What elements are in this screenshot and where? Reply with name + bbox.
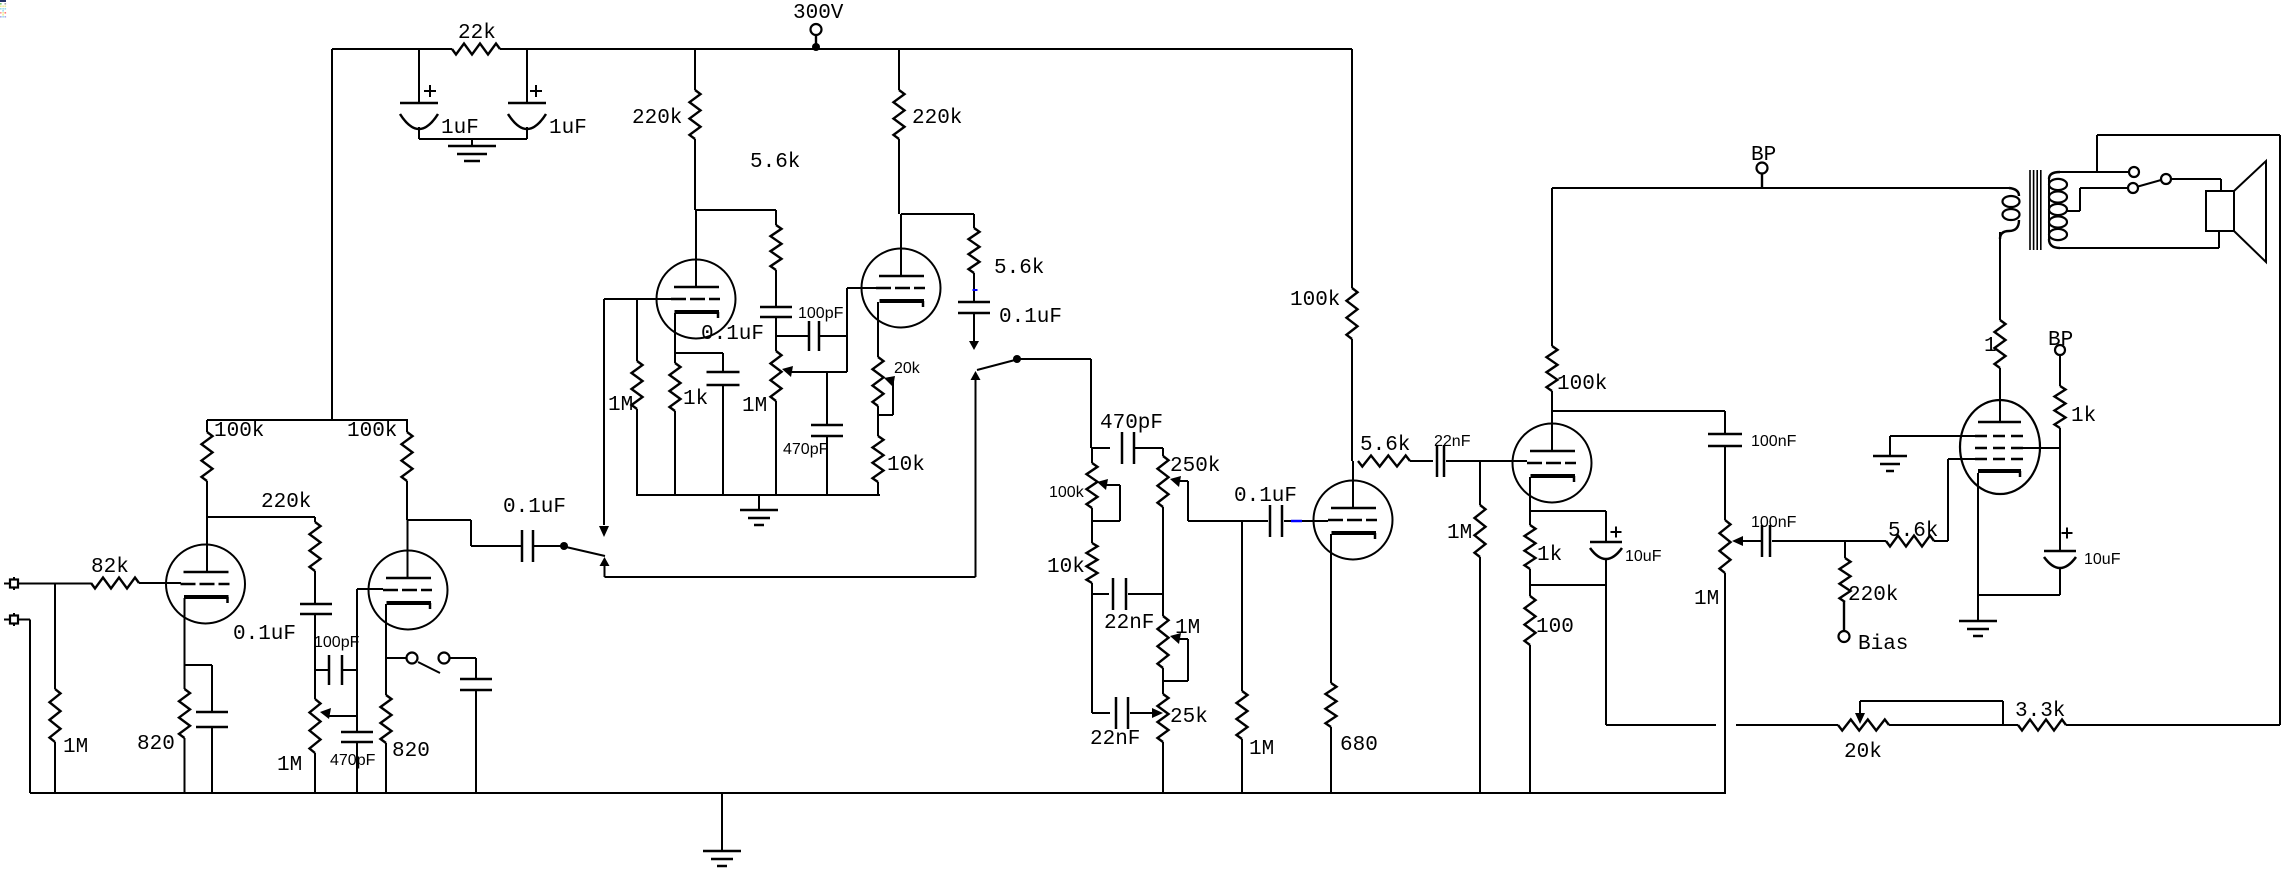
svg-text:22nF: 22nF bbox=[1090, 728, 1140, 751]
terminal input lower bbox=[4, 619, 10, 621]
svg-text:100pF: 100pF bbox=[798, 305, 844, 322]
wire secondary top bbox=[2060, 171, 2129, 173]
ground V7 cathode bbox=[1977, 595, 1979, 621]
svg-text:100nF: 100nF bbox=[1751, 514, 1797, 531]
svg-text:100k: 100k bbox=[347, 420, 397, 443]
wire V2 cathode lead bbox=[385, 604, 387, 658]
wiper arrow VR5 bbox=[1170, 476, 1181, 487]
resistor R25 220k bias feed bbox=[1844, 541, 1846, 558]
resistor R21 1M V6 grid bbox=[1479, 461, 1481, 505]
capacitor C21 100nF bbox=[1743, 540, 1762, 542]
capacitor C22 10uF electrolytic screen bbox=[2044, 550, 2076, 553]
svg-text:300V: 300V bbox=[793, 2, 844, 25]
wire V1 plate to 220k bbox=[207, 516, 315, 518]
switch S1 cathode bbox=[386, 657, 406, 659]
wire V4 cathode lead bbox=[877, 302, 879, 357]
resistor R18 100k V5 plate load bbox=[1351, 49, 1353, 288]
wire secondary top riser bbox=[2096, 135, 2098, 172]
svg-text:250k: 250k bbox=[1170, 455, 1220, 478]
wire blue mark bbox=[973, 289, 978, 291]
svg-text:0.1uF: 0.1uF bbox=[999, 306, 1062, 329]
svg-text:1M: 1M bbox=[742, 395, 767, 418]
wire V3 plate to 5.6k chain bbox=[696, 209, 776, 211]
svg-text:10uF: 10uF bbox=[1625, 548, 1662, 565]
transformer T1 primary bbox=[2009, 188, 2019, 196]
wire secondary tap bbox=[2066, 210, 2080, 212]
wire V6 cathode node bottom bbox=[1530, 584, 1606, 586]
resistor R28 1k screen bbox=[2059, 355, 2061, 386]
arrow selector up contact bbox=[600, 557, 610, 566]
resistor R11 5.6k bbox=[775, 210, 777, 225]
svg-text:1k: 1k bbox=[683, 388, 708, 411]
wire V7 cathode node bbox=[1978, 594, 2060, 596]
pentode V7 bbox=[1960, 400, 2040, 494]
ground below 1uF caps bbox=[471, 139, 473, 146]
capacitor C18 22nF coupling bbox=[1436, 445, 1439, 477]
capacitor C2 1uF electrolytic bbox=[508, 102, 546, 105]
svg-text:1k: 1k bbox=[2071, 405, 2096, 428]
wire 20k to 3.3k bbox=[1889, 724, 2018, 726]
resistor R26 5.6k grid stopper bbox=[1845, 540, 1886, 542]
wire V5 cathode lead bbox=[1330, 534, 1332, 683]
svg-text:22nF: 22nF bbox=[1434, 433, 1471, 450]
wire C9 to VR2 bbox=[775, 317, 777, 351]
switch S3 lever bbox=[977, 360, 1015, 370]
svg-text:220k: 220k bbox=[1848, 584, 1898, 607]
resistor R2 82k bbox=[91, 578, 139, 589]
wire blue mark 2 bbox=[1291, 520, 1302, 523]
capacitor C19 10uF electrolytic bbox=[1605, 511, 1607, 542]
svg-text:3.3k: 3.3k bbox=[2015, 700, 2065, 723]
triode V4 bbox=[862, 249, 941, 328]
wire V1 cathode lead bbox=[184, 598, 186, 665]
wire HT rail right segment bbox=[500, 48, 1352, 50]
potentiometer VR3 20k bbox=[873, 357, 884, 406]
svg-text:5.6k: 5.6k bbox=[1360, 434, 1410, 457]
svg-text:10uF: 10uF bbox=[2084, 551, 2121, 568]
resistor R24 100 bbox=[1529, 585, 1531, 596]
wire selector to lower bus bbox=[605, 576, 976, 578]
wire C17 to V5 grid bbox=[1284, 520, 1328, 522]
svg-text:820: 820 bbox=[137, 733, 175, 756]
svg-text:470pF: 470pF bbox=[1100, 412, 1163, 435]
svg-text:1M: 1M bbox=[63, 736, 88, 759]
capacitor C8 0.1uF coupling bbox=[521, 530, 524, 562]
ground main bbox=[721, 793, 723, 851]
capacitor C15 22nF bbox=[1092, 593, 1109, 595]
svg-text:100: 100 bbox=[1536, 616, 1574, 639]
wire S3 pole to tone chain bbox=[1020, 358, 1091, 360]
svg-text:100nF: 100nF bbox=[1751, 433, 1797, 450]
ground V7 grid bbox=[1873, 455, 1907, 458]
svg-text:1M: 1M bbox=[1249, 738, 1274, 761]
resistor R7 220k interstage bbox=[314, 517, 316, 522]
transformer T1 core bbox=[2029, 170, 2031, 250]
wire V4 plate lead bbox=[900, 214, 902, 276]
wire input lower to ground bus bbox=[19, 619, 31, 621]
svg-text:1uF: 1uF bbox=[441, 117, 479, 140]
wire V6 cathode lead bbox=[1529, 477, 1531, 511]
svg-text:100k: 100k bbox=[1557, 373, 1607, 396]
wire V3 cathode lead bbox=[674, 313, 676, 363]
capacitor C1 1uF electrolytic bbox=[400, 102, 438, 105]
potentiometer VR5 250k bbox=[1162, 448, 1164, 456]
resistor R4 820 V1 cathode bbox=[179, 689, 190, 738]
wire V7 g1 to ground bbox=[1890, 435, 1975, 437]
wire left HT drop bbox=[331, 49, 333, 420]
wire switch to speaker bbox=[2171, 178, 2221, 180]
svg-text:0.1uF: 0.1uF bbox=[233, 623, 296, 646]
svg-text:220k: 220k bbox=[912, 107, 962, 130]
wire feedback rail bbox=[1605, 585, 1607, 725]
svg-text:100k: 100k bbox=[1290, 289, 1340, 312]
potentiometer VR7 1M bbox=[1158, 616, 1169, 668]
potentiometer VR4 100k tone bbox=[1091, 448, 1093, 463]
resistor R9 220k V3 plate bbox=[694, 49, 696, 90]
svg-text:0.1uF: 0.1uF bbox=[1234, 485, 1297, 508]
wire V4 plate to 5.6k chain bbox=[901, 213, 974, 215]
terminal 300V bbox=[811, 24, 822, 35]
wiper arrow VR2 bbox=[782, 366, 793, 377]
resistor R1 22k bbox=[452, 44, 500, 55]
resistor R12 1M V3 grid bbox=[636, 299, 638, 361]
wire plate-load top bar bbox=[207, 419, 408, 421]
svg-text:0.1uF: 0.1uF bbox=[503, 496, 566, 519]
wire V6 top feed bbox=[1552, 187, 2009, 189]
wire V6 plate node to 100nF chain bbox=[1552, 410, 1725, 412]
svg-text:20k: 20k bbox=[894, 360, 921, 377]
wire V5 plate lead bbox=[1352, 461, 1354, 508]
svg-text:1: 1 bbox=[1984, 335, 1997, 358]
junction dot 300V on rail bbox=[812, 43, 820, 51]
resistor R17 1M grid leak bbox=[1241, 521, 1243, 691]
wire V1 plate lead bbox=[206, 517, 208, 572]
svg-text:680: 680 bbox=[1340, 734, 1378, 757]
arrow feedback up contact bbox=[971, 371, 981, 380]
svg-text:10k: 10k bbox=[887, 454, 925, 477]
svg-text:5.6k: 5.6k bbox=[1888, 520, 1938, 543]
potentiometer VR6 25k bbox=[1162, 668, 1164, 694]
capacitor C6 470pF bbox=[356, 716, 358, 732]
arrow selector S3 down contact bbox=[973, 313, 975, 341]
svg-text:820: 820 bbox=[392, 740, 430, 763]
wire 1uF cap stub left bbox=[418, 49, 420, 103]
speaker LS1 bbox=[2206, 191, 2234, 231]
wire V2 plate to C8 bbox=[408, 519, 471, 521]
capacitor C16 22nF bbox=[1092, 712, 1110, 714]
resistor R3 1M input bbox=[54, 583, 56, 689]
wiper arrow VR3 bbox=[884, 376, 895, 387]
svg-text:470pF: 470pF bbox=[330, 752, 376, 769]
triode V5 bbox=[1314, 481, 1393, 560]
wire HT rail left segment bbox=[332, 48, 452, 50]
capacitor C7 V2 cathode bbox=[460, 678, 492, 681]
wire main ground bus bbox=[30, 792, 1726, 794]
svg-text:Bias: Bias bbox=[1858, 633, 1908, 656]
wire C4 to volume pot bbox=[314, 614, 316, 699]
potentiometer VR8 1M bbox=[1724, 446, 1726, 520]
wiper arrow VR8 bbox=[1732, 536, 1743, 546]
wiper arrow VR7 bbox=[1170, 633, 1181, 644]
capacitor C11 470pF to bus bbox=[826, 372, 828, 425]
svg-text:22nF: 22nF bbox=[1104, 612, 1154, 635]
wire V7 screen to BP rail bbox=[2023, 447, 2060, 449]
svg-text:22k: 22k bbox=[458, 22, 496, 45]
switch S2 lever bbox=[566, 547, 605, 556]
wire 82k to grid V1 bbox=[139, 582, 181, 584]
svg-text:100k: 100k bbox=[1049, 484, 1085, 501]
potentiometer VR9 20k bbox=[1838, 720, 1889, 731]
resistor R19 680 V5 cathode bbox=[1326, 683, 1337, 727]
decorative favicon fragment top-left bbox=[0, 0, 6, 2]
svg-text:5.6k: 5.6k bbox=[750, 151, 800, 174]
arrow V3 grid down contact bbox=[603, 299, 605, 525]
svg-text:1M: 1M bbox=[608, 394, 633, 417]
svg-text:220k: 220k bbox=[632, 107, 682, 130]
capacitor C12 1k bypass bbox=[675, 352, 723, 354]
switch S4 speaker bbox=[2129, 167, 2139, 177]
wiper arrow VR6 25k bbox=[1152, 708, 1163, 718]
wire V7 cathode lead bbox=[1977, 473, 1979, 595]
svg-text:1M: 1M bbox=[277, 754, 302, 777]
resistor R13 1k V3 cathode bbox=[670, 363, 681, 411]
svg-text:10k: 10k bbox=[1047, 556, 1085, 579]
resistor R6 100k V2 plate load bbox=[406, 420, 408, 432]
capacitor C9 0.1uF bbox=[760, 306, 792, 309]
capacitor C5 100pF bright bbox=[315, 669, 329, 671]
wiper arrow VR1 bbox=[320, 708, 331, 719]
potentiometer VR2 1M bbox=[771, 351, 782, 401]
wire V2 plate lead bbox=[407, 520, 409, 578]
resistor R29 3.3k feedback bbox=[2018, 720, 2066, 731]
svg-text:5.6k: 5.6k bbox=[994, 257, 1044, 280]
svg-text:100k: 100k bbox=[214, 420, 264, 443]
capacitor C17 0.1uF coupling bbox=[1269, 505, 1272, 537]
wire V7 plate lead bbox=[1999, 368, 2001, 422]
resistor R27 1 output bbox=[1995, 320, 2006, 368]
wire 1uF cap stub right bbox=[526, 49, 528, 103]
wire secondary bottom bbox=[2060, 247, 2219, 249]
resistor R20 5.6k grid stopper bbox=[1358, 456, 1410, 467]
wire input upper bbox=[19, 583, 92, 585]
resistor R15 10k bbox=[877, 406, 879, 436]
resistor R22 100k V6 plate load bbox=[1551, 188, 1553, 346]
wire tone chain down bbox=[1091, 594, 1093, 713]
wire V1 cathode node bbox=[185, 664, 213, 666]
resistor R14 5.6k bbox=[973, 214, 975, 228]
wire V6 cathode node top bbox=[1530, 510, 1606, 512]
triode V1 input bbox=[166, 545, 245, 624]
wire right edge return bbox=[2279, 135, 2281, 725]
wire V4 grid riser bbox=[846, 288, 848, 372]
wire S1 to C7 bbox=[450, 657, 477, 659]
capacitor C13 0.1uF bbox=[958, 301, 990, 304]
capacitor C4 0.1uF coupling bbox=[300, 603, 332, 606]
resistor R23 1k V6 cathode bbox=[1529, 511, 1531, 525]
svg-text:BP: BP bbox=[2048, 329, 2073, 352]
resistor R5 100k V1 plate load bbox=[206, 420, 208, 432]
wire V6 plate lead bbox=[1551, 411, 1553, 451]
svg-text:1M: 1M bbox=[1694, 588, 1719, 611]
junction dot S3 pole bbox=[1013, 355, 1021, 363]
svg-text:470pF: 470pF bbox=[783, 441, 829, 458]
wire V3 grid lead bbox=[604, 298, 671, 300]
wire middle ground bus bbox=[636, 494, 880, 496]
wire V3 plate lead bbox=[695, 210, 697, 287]
capacitor C10 100pF bbox=[776, 335, 809, 337]
svg-text:0.1uF: 0.1uF bbox=[701, 323, 764, 346]
potentiometer VR1 1M volume bbox=[310, 699, 321, 753]
capacitor C20 100nF bbox=[1724, 411, 1726, 434]
terminal Bias bbox=[1839, 631, 1850, 642]
transformer T1 secondary bbox=[2049, 172, 2060, 179]
junction dot selector S2 pole bbox=[560, 542, 568, 550]
wiper arrow VR9 bbox=[1855, 713, 1865, 724]
svg-text:20k: 20k bbox=[1844, 741, 1882, 764]
wire joining 1uF cap bottoms bbox=[418, 127, 420, 139]
triode V6 bbox=[1513, 424, 1592, 503]
triode V3 bbox=[657, 260, 736, 339]
triode V2 bbox=[369, 551, 448, 630]
resistor R16 10k tone bbox=[1091, 508, 1093, 543]
wire to pentode grid bbox=[1934, 540, 1948, 542]
svg-text:1M: 1M bbox=[1447, 522, 1472, 545]
svg-text:82k: 82k bbox=[91, 556, 129, 579]
svg-text:1uF: 1uF bbox=[549, 117, 587, 140]
svg-text:100pF: 100pF bbox=[314, 634, 360, 651]
wiper arrow VR4 bbox=[1097, 479, 1108, 490]
resistor R10 220k V4 plate bbox=[898, 49, 900, 90]
resistor R8 820 V2 cathode bbox=[385, 658, 387, 695]
svg-text:25k: 25k bbox=[1170, 706, 1208, 729]
wire V2 grid line bbox=[357, 588, 383, 590]
wire C8 to selector contact bbox=[533, 545, 561, 547]
capacitor C3 V1 cathode bypass bbox=[211, 665, 213, 712]
terminal input upper bbox=[4, 583, 10, 585]
ground middle bus bbox=[758, 495, 760, 510]
wire wiper junction to coupling bbox=[1188, 520, 1268, 522]
svg-text:220k: 220k bbox=[261, 491, 311, 514]
svg-text:1k: 1k bbox=[1537, 544, 1562, 567]
capacitor C14 470pF tone bbox=[1092, 447, 1110, 449]
